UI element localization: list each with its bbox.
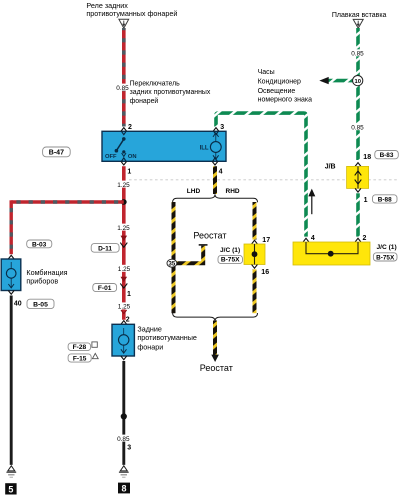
svg-text:2: 2: [363, 235, 367, 242]
svg-text:B-88: B-88: [378, 197, 392, 204]
svg-text:J/C (1): J/C (1): [220, 247, 240, 254]
svg-text:B-05: B-05: [33, 302, 48, 309]
text LHD / RHD: [187, 188, 240, 195]
svg-text:16: 16: [261, 269, 269, 276]
wire red/black: switch pin 1 down to fog lamps: [122, 166, 126, 320]
pin 4 connector chevrons: [212, 158, 218, 165]
instrument cluster lamp: [6, 262, 16, 288]
pin 18 connector chevrons: [355, 163, 361, 167]
value label 0.85 lower green wire: [351, 123, 364, 131]
connector triangle from relay: [119, 19, 129, 28]
wire black: fog lamps to ground 8: [122, 361, 125, 465]
wire green/white: switch pin 3 up and over to J/C pin 4: [216, 113, 306, 237]
pin 1 number: [127, 168, 131, 175]
label plate B-47: [43, 147, 71, 157]
direction arrow up beside green wire: [308, 189, 315, 215]
text OFF / ON: [105, 154, 137, 160]
pin 16 connector chevrons: [252, 265, 258, 269]
svg-text:1: 1: [127, 291, 131, 298]
illumination lamp ILL in switch: [200, 133, 222, 159]
wire black/yellow: merged output to rheostat: [211, 321, 219, 363]
svg-text:40: 40: [14, 301, 22, 308]
ground number plate 5: [5, 483, 16, 494]
junction block J/B box: [347, 166, 369, 188]
svg-text:3: 3: [127, 445, 131, 452]
svg-text:фонари: фонари: [137, 342, 163, 351]
junction dot to instrument cluster branch: [121, 199, 127, 205]
value label 1.25 below pin 1: [117, 181, 131, 189]
text: rear fog lamp relay heading: [86, 1, 177, 18]
svg-text:1.25: 1.25: [117, 225, 130, 232]
junction connector J/C(1) RHD box: [244, 244, 265, 265]
svg-text:18: 18: [363, 154, 371, 161]
svg-text:B-75X: B-75X: [376, 254, 395, 261]
svg-text:Кондиционер: Кондиционер: [258, 79, 301, 86]
section separator dashed line: [129, 179, 398, 181]
pin 3 number: [220, 124, 224, 131]
text: consumers list (clock, A/C, plate lamp): [258, 69, 313, 103]
svg-text:1.25: 1.25: [117, 182, 130, 189]
value label 0.85 on relay wire: [116, 84, 129, 92]
pin 3 connector chevrons: [213, 128, 219, 135]
svg-text:B-83: B-83: [380, 152, 394, 159]
label plate B-75X small: [218, 255, 243, 263]
label plate F-15 with triangle mark: [68, 353, 98, 362]
svg-text:ILL: ILL: [200, 146, 209, 152]
svg-text:1.25: 1.25: [118, 304, 131, 311]
text: fusible link heading: [332, 12, 387, 19]
text: instrument cluster heading: [26, 268, 67, 285]
svg-text:противотуманных фонарей: противотуманных фонарей: [86, 9, 177, 18]
pin 2 number: [128, 124, 132, 131]
svg-text:Реостат: Реостат: [200, 363, 233, 373]
text J/B: [325, 164, 336, 171]
merge brace bottom: [173, 313, 258, 321]
pin 1 connector chevrons below J/B: [355, 188, 361, 192]
wire red/black: down to instrument cluster: [9, 200, 12, 254]
value label 1.25 above fog lamp: [117, 302, 131, 310]
fog lamp pin chevrons bottom: [121, 356, 127, 360]
pin 2 number at fog lamp: [126, 316, 130, 323]
pin 3 number at ground: [127, 445, 131, 452]
svg-text:0.85: 0.85: [116, 85, 129, 92]
connector triangle from fusible link: [353, 19, 363, 28]
rear fog lamp bulb: [119, 328, 129, 353]
instrument cluster box: [1, 259, 21, 291]
instrument cluster pin chevrons bottom: [8, 291, 14, 295]
label plate D-11: [91, 244, 119, 253]
connector D-11 arrows on wire: [120, 236, 127, 248]
node 10: [353, 76, 363, 86]
connector F-01 arrows on wire: [120, 277, 127, 288]
ground symbol 5: [6, 466, 16, 478]
svg-text:D-11: D-11: [98, 245, 112, 252]
wire black: cluster to ground 5: [10, 296, 13, 465]
svg-text:17: 17: [262, 237, 270, 244]
svg-text:RHD: RHD: [226, 188, 240, 195]
wire black/yellow: RHD branch upper: [253, 202, 257, 240]
junction dot on ground wire: [121, 413, 127, 419]
svg-text:J/C (1): J/C (1): [377, 244, 397, 251]
svg-text:2: 2: [128, 124, 132, 131]
pin 4 number: [219, 168, 223, 175]
svg-text:4: 4: [219, 168, 223, 175]
ground symbol 8: [119, 466, 129, 478]
svg-text:4: 4: [311, 235, 315, 242]
pin 18 number: [363, 154, 371, 161]
label plate B-83: [375, 151, 399, 160]
svg-text:0.85: 0.85: [351, 125, 364, 132]
wire green/white: fusible link down to J/B pin 18: [356, 28, 360, 160]
svg-text:F-28: F-28: [73, 344, 87, 351]
svg-text:ON: ON: [128, 154, 137, 160]
pin 1 number at B-88: [364, 197, 368, 204]
switch component box U1: [102, 131, 226, 161]
svg-text:3: 3: [220, 124, 224, 131]
instrument cluster pin chevrons top: [8, 255, 14, 262]
value label 0.85 upper green wire: [351, 49, 364, 57]
svg-text:LHD: LHD: [187, 188, 201, 195]
svg-text:фонарей: фонарей: [130, 97, 159, 105]
wire red/black horizontal to instrument cluster: [11, 200, 124, 203]
text: rear fog lamp switch heading: [130, 80, 211, 105]
pin 17 number: [262, 237, 270, 244]
svg-text:1: 1: [127, 168, 131, 175]
text: J/C (1) small heading: [220, 247, 240, 254]
ground number plate 8: [118, 483, 130, 494]
wire green/white horizontal branch to consumers: [327, 79, 353, 83]
switch contact and lever: [115, 137, 126, 156]
label plate B-75X wide: [373, 253, 397, 261]
svg-text:номерного знака: номерного знака: [258, 97, 313, 104]
svg-text:0.85: 0.85: [351, 51, 364, 58]
svg-text:1.25: 1.25: [118, 266, 131, 273]
pin 4 connector chevrons at wide J/C: [303, 238, 309, 242]
pin 2 connector chevrons: [121, 128, 127, 135]
label plate F-01: [93, 284, 117, 293]
text: J/C (1) wide heading: [377, 244, 397, 251]
svg-text:Переключатель: Переключатель: [130, 80, 181, 87]
pin 2 connector chevrons at wide J/C: [355, 238, 361, 242]
value label 1.25 between D-11 and F-01: [117, 265, 131, 273]
svg-text:5: 5: [8, 485, 13, 495]
label plate B-03: [27, 240, 52, 248]
svg-text:противотуманные: противотуманные: [137, 333, 197, 342]
svg-text:Часы: Часы: [258, 69, 275, 76]
svg-text:Плавкая вставка: Плавкая вставка: [332, 12, 387, 19]
wire black/yellow: switch pin 4 down to LHD/RHD split: [213, 166, 217, 194]
svg-text:B-47: B-47: [49, 150, 64, 157]
label plate B-88: [373, 195, 398, 204]
value label 0.85 on ground wire: [117, 435, 130, 443]
wire black/yellow: RHD branch lower: [253, 269, 257, 313]
pin 1 number at F-01: [127, 291, 131, 298]
svg-text:0.85: 0.85: [117, 436, 130, 443]
rear fog lamps box: [112, 324, 134, 356]
svg-text:2: 2: [126, 316, 130, 323]
fog lamp pin chevrons top: [121, 321, 127, 328]
text: rheostat (stub): [193, 230, 226, 240]
text: rheostat (bottom): [200, 363, 233, 373]
svg-text:B-75X: B-75X: [221, 257, 240, 264]
label plate F-28 with square mark: [68, 342, 97, 351]
value label 1.25 above D-11: [117, 224, 131, 232]
label plate B-05: [27, 299, 54, 308]
pin 40 number: [14, 301, 22, 308]
pin 16 number: [261, 269, 269, 276]
arrowhead to consumers: [319, 77, 328, 84]
wire green/white: J/B down to J/C pin 2: [356, 193, 360, 236]
svg-text:10: 10: [354, 79, 360, 85]
pin 2 number at wide J/C: [363, 235, 367, 242]
pin 17 connector chevrons: [252, 240, 258, 244]
svg-text:F-15: F-15: [73, 355, 87, 362]
pin 1 connector chevrons: [121, 158, 127, 165]
svg-text:1: 1: [364, 197, 368, 204]
svg-text:F-01: F-01: [98, 285, 112, 292]
svg-text:приборов: приборов: [26, 276, 58, 285]
svg-text:Освещение: Освещение: [258, 88, 296, 95]
svg-text:8: 8: [121, 484, 126, 494]
wire black/yellow: rheostat stub: [174, 245, 208, 263]
svg-text:Реостат: Реостат: [193, 230, 226, 240]
junction connector J/C(1) wide box: [293, 242, 370, 265]
node 35: [167, 259, 177, 267]
svg-text:35: 35: [169, 262, 176, 268]
wire black/yellow: LHD branch: [172, 202, 176, 313]
svg-text:задних противотуманных: задних противотуманных: [130, 89, 211, 96]
svg-text:B-03: B-03: [32, 241, 47, 248]
svg-text:OFF: OFF: [105, 154, 117, 160]
small chevron above fog lamp pin 2: [121, 310, 127, 314]
split brace top: [173, 194, 258, 202]
text: rear fog lamps heading: [137, 324, 197, 351]
pin 4 number at wide J/C: [311, 235, 315, 242]
svg-text:J/B: J/B: [325, 164, 336, 171]
wire red/black: relay to switch pin 2: [122, 28, 126, 127]
